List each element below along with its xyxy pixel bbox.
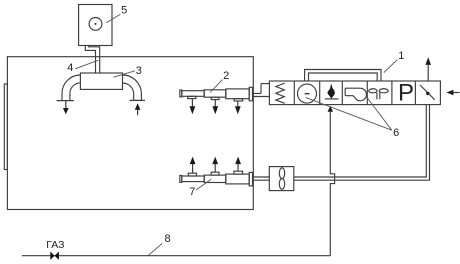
duct 2 segment 2 bbox=[204, 90, 226, 97]
motor dash bbox=[305, 93, 310, 95]
fan propeller symbol bbox=[369, 89, 377, 93]
right duct inner arc bbox=[123, 83, 134, 100]
svg-text:7: 7 bbox=[189, 186, 195, 198]
duct 7 segment 1 bbox=[182, 176, 204, 182]
damper dot bbox=[426, 92, 429, 95]
wall transition duct upper line bbox=[253, 84, 269, 94]
leader 3 bbox=[113, 71, 135, 78]
svg-text:8: 8 bbox=[165, 233, 171, 245]
svg-text:P: P bbox=[398, 80, 414, 107]
burner base line bbox=[325, 98, 339, 100]
duct 2 down arrow 1 bbox=[191, 99, 193, 107]
right duct flange bbox=[130, 99, 146, 101]
duct 7 segment 3 bbox=[226, 174, 249, 184]
fan blade lower ellipse bbox=[279, 179, 284, 190]
unit divider 1 bbox=[293, 81, 295, 105]
duct 7 nozzle 3 bbox=[234, 171, 243, 174]
box 5 (control unit) bbox=[79, 5, 112, 46]
left duct flange bbox=[57, 100, 74, 102]
damper diagonal bbox=[420, 85, 435, 100]
leader 8 bbox=[148, 243, 162, 255]
leader 1 bbox=[384, 60, 398, 73]
up arrow above damper box bbox=[427, 65, 429, 81]
return duct 7: end cap bbox=[180, 176, 182, 183]
unit divider 5 bbox=[391, 81, 393, 105]
svg-text:6: 6 bbox=[393, 127, 399, 139]
svg-text:2: 2 bbox=[223, 70, 229, 82]
casing bracket inner bbox=[309, 73, 378, 81]
duct 2 flange bbox=[249, 87, 252, 101]
room outline bbox=[7, 57, 253, 210]
duct 2 down arrow 3 bbox=[237, 101, 239, 107]
leader 6 to fan bbox=[366, 96, 392, 130]
duct 2 nozzle 3 bbox=[234, 99, 243, 101]
unit divider 4 bbox=[366, 81, 368, 105]
leader 4 bbox=[75, 60, 98, 69]
gas arrow into burner bbox=[328, 106, 333, 112]
door on left wall bbox=[4, 84, 7, 170]
right up arrow bbox=[135, 103, 141, 110]
svg-text:ГАЗ: ГАЗ bbox=[46, 239, 64, 251]
duct 7 up arrow 2 bbox=[212, 157, 218, 165]
leader 2 bbox=[210, 80, 222, 93]
svg-text:3: 3 bbox=[136, 65, 142, 77]
pipe 4 double line bbox=[85, 46, 95, 74]
leader 6 to motor bbox=[306, 97, 392, 130]
unit divider 6 bbox=[414, 81, 416, 105]
supply duct 2: end cap bbox=[180, 90, 182, 97]
duct 2 nozzle 2 bbox=[211, 97, 219, 99]
motor circle symbol bbox=[298, 84, 317, 103]
duct 7 up arrow 3 bbox=[235, 157, 241, 165]
duct 7 segment 2 bbox=[204, 175, 226, 182]
duct 2 down arrow 2 bbox=[214, 100, 216, 107]
pipe fan to damper box bbox=[294, 105, 427, 177]
leader 7 bbox=[196, 179, 211, 190]
svg-text:1: 1 bbox=[398, 50, 404, 62]
gas valve bbox=[50, 252, 59, 260]
svg-text:5: 5 bbox=[121, 5, 127, 17]
gas line 8 bbox=[22, 255, 330, 257]
fan box bbox=[269, 167, 294, 191]
duct 2 segment 3 bbox=[226, 89, 249, 99]
svg-text:4: 4 bbox=[67, 62, 73, 74]
duct 7 nozzle 1 bbox=[188, 173, 196, 176]
duct 2 nozzle 1 bbox=[188, 96, 196, 98]
duct 7 flange bbox=[249, 172, 252, 186]
fan blade upper ellipse bbox=[279, 168, 284, 179]
pipe wall to fan bbox=[253, 176, 269, 178]
unit divider 3 bbox=[341, 81, 343, 105]
left duct inner arc bbox=[70, 83, 81, 101]
heating coil zigzag bbox=[276, 83, 285, 103]
duct 7 nozzle 2 bbox=[211, 172, 219, 175]
left down arrow bbox=[65, 101, 67, 109]
duct 2 segment 1 bbox=[182, 91, 204, 97]
heater unit row outline bbox=[269, 81, 440, 105]
blower whistle symbol bbox=[345, 88, 366, 101]
unit divider 2 bbox=[319, 81, 321, 105]
leader 5 bbox=[106, 14, 120, 23]
circle in box 5 bbox=[89, 18, 102, 31]
left duct outer arc bbox=[62, 75, 80, 101]
unit 3 rectangle bbox=[80, 73, 122, 89]
casing bracket outer bbox=[305, 70, 381, 82]
duct 7 up arrow 1 bbox=[190, 157, 196, 165]
right duct outer arc bbox=[123, 75, 142, 100]
dot in circle of box 5 bbox=[95, 23, 97, 25]
wall transition duct lower line bbox=[253, 96, 269, 98]
burner flame symbol bbox=[327, 84, 334, 99]
gas riser with jog over pipe bbox=[330, 112, 334, 256]
left arrow at right edge bbox=[453, 92, 459, 94]
